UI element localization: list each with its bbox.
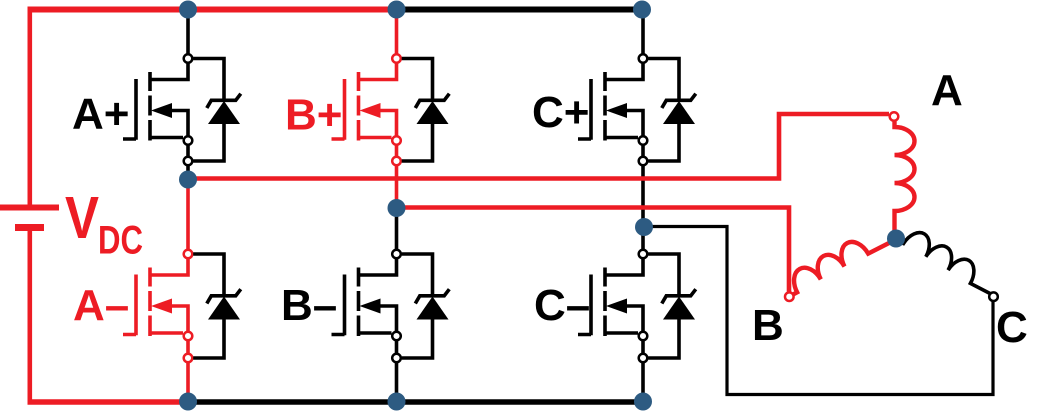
svg-text:A–: A– bbox=[73, 281, 129, 330]
motor star point bbox=[887, 230, 905, 248]
wire node A to A- drain bbox=[186, 180, 190, 250]
pin: winding B terminal bbox=[785, 292, 794, 301]
wire phase C (node C to winding C terminal) bbox=[643, 227, 993, 395]
transistor A- (N-MOSFET) bbox=[123, 259, 188, 353]
svg-text:A: A bbox=[931, 66, 963, 115]
body diode of A- bbox=[193, 254, 241, 358]
junction top rail / B+ bbox=[388, 1, 406, 19]
wire phase A (node A to winding A terminal) bbox=[188, 114, 889, 179]
wire B- source to bottom rail bbox=[395, 363, 399, 402]
wire A+ source to node A bbox=[186, 166, 190, 180]
junction top rail / A+ bbox=[179, 1, 197, 19]
battery VDC bbox=[0, 7, 59, 404]
svg-text:V: V bbox=[65, 185, 99, 251]
wire node B to B- drain bbox=[395, 208, 399, 249]
wire B+ drain lead from top rail bbox=[395, 10, 399, 54]
body diode of B- bbox=[402, 254, 450, 358]
junction bottom rail / B- bbox=[388, 393, 406, 411]
body diode of C- bbox=[648, 254, 696, 358]
transistor C+ (N-MOSFET) bbox=[578, 64, 643, 157]
body diode of B+ bbox=[402, 59, 450, 162]
transistor C- (N-MOSFET) bbox=[578, 259, 643, 353]
junction top rail / C+ bbox=[633, 1, 651, 19]
node B bbox=[388, 199, 406, 217]
pin: winding A terminal bbox=[890, 112, 899, 121]
wire A+ drain lead from top rail bbox=[186, 10, 190, 54]
wire C+ source to node C (crosses phase A,B wires) bbox=[641, 166, 645, 227]
svg-text:B+: B+ bbox=[285, 91, 342, 140]
wire top rail (black section) bbox=[397, 7, 643, 13]
svg-text:C+: C+ bbox=[532, 88, 589, 137]
transistor B- (N-MOSFET) bbox=[332, 259, 397, 353]
transistor B+ (N-MOSFET) bbox=[332, 64, 397, 157]
svg-text:A+: A+ bbox=[72, 90, 129, 139]
junction bottom rail / C- bbox=[634, 393, 652, 411]
node C bbox=[635, 218, 653, 236]
svg-text:DC: DC bbox=[98, 219, 143, 263]
wire node C to C- drain bbox=[641, 227, 645, 249]
body diode of C+ bbox=[648, 59, 696, 162]
winding C (phase C coil) bbox=[900, 233, 991, 294]
wire C- source to bottom rail bbox=[641, 363, 645, 402]
junction bottom rail / A- bbox=[179, 393, 197, 411]
pin: winding C terminal bbox=[989, 292, 998, 301]
wire C+ drain lead from top rail bbox=[641, 10, 645, 54]
wire B+ source to node B (crosses phase A wire) bbox=[395, 166, 399, 208]
wire phase B (node B to winding B terminal) bbox=[397, 208, 790, 292]
wire A- source to bottom rail bbox=[186, 363, 190, 402]
svg-text:C–: C– bbox=[534, 281, 590, 330]
wire top rail (red section, V+ bus) bbox=[28, 7, 398, 13]
winding B (phase B coil) bbox=[794, 242, 890, 294]
winding A (phase A coil) bbox=[895, 122, 915, 232]
wire bottom rail (black section) bbox=[188, 399, 643, 405]
svg-text:B–: B– bbox=[281, 281, 337, 330]
svg-text:C: C bbox=[996, 303, 1028, 352]
body diode of A+ bbox=[193, 59, 241, 162]
node A bbox=[179, 171, 197, 189]
wire bottom rail (red section, V- bus) bbox=[28, 399, 189, 405]
transistor A+ (N-MOSFET) bbox=[123, 64, 188, 157]
svg-text:B: B bbox=[752, 301, 784, 350]
